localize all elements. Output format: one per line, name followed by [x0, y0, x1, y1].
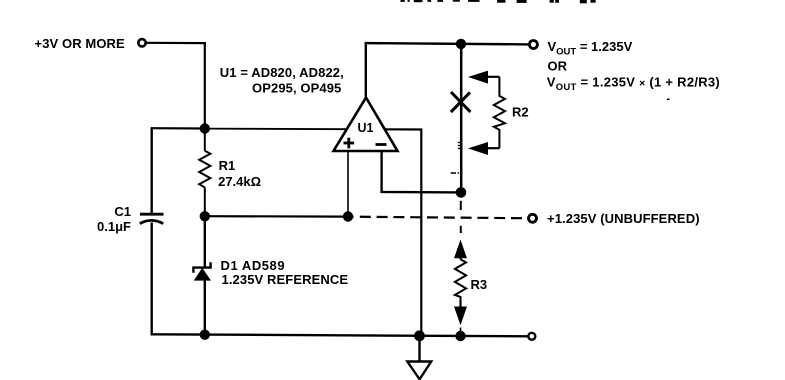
op-amp U1	[334, 98, 398, 152]
cropped title text bottom fragments	[401, 0, 596, 3]
wire ground rail	[151, 334, 530, 336]
diode D1 zener	[193, 216, 211, 335]
svg-text:R3: R3	[471, 277, 488, 292]
node junction D1/ground rail	[200, 330, 210, 340]
stray dash artifact	[451, 172, 459, 174]
wire node to unbuffered junction	[205, 215, 348, 218]
node junction plus input / unbuffered line	[343, 211, 353, 221]
svg-text:OR: OR	[548, 58, 568, 73]
capacitor C1	[140, 214, 164, 335]
svg-text:VOUT = 1.235V × (1 + R2/R3): VOUT = 1.235V × (1 + R2/R3)	[547, 75, 720, 93]
break mark X	[451, 92, 471, 112]
ground symbol	[407, 336, 431, 380]
node junction R3/ground rail	[455, 331, 465, 341]
resistor R2 with arrows	[468, 71, 505, 155]
wire dashed unbuffered output	[354, 217, 523, 219]
node ground rail terminal	[528, 333, 535, 340]
wire minus input feedback	[382, 150, 461, 192]
wire C1 branch vertical upper	[150, 127, 152, 214]
svg-text:C1: C1	[114, 204, 131, 219]
svg-text:0.1μF: 0.1μF	[97, 219, 131, 234]
svg-text:+1.235V (UNBUFFERED): +1.235V (UNBUFFERED)	[547, 211, 700, 226]
svg-text:VOUT = 1.235V: VOUT = 1.235V	[548, 39, 633, 57]
node VOUT terminal	[529, 41, 537, 49]
wire supply vertical	[204, 42, 206, 129]
svg-text:U1: U1	[358, 121, 374, 135]
resistor R3 with arrows	[454, 240, 467, 332]
wire top output rail	[365, 43, 530, 44]
node junction output rail / R2 branch	[456, 39, 466, 49]
svg-text:R2: R2	[512, 104, 529, 119]
svg-text:U1 = AD820, AD822,: U1 = AD820, AD822,	[220, 65, 344, 80]
node unbuffered terminal	[529, 214, 537, 222]
node junction feedback / minus input	[456, 187, 467, 198]
wire supply horizontal	[146, 42, 206, 44]
wire dashed to R3	[460, 201, 462, 233]
stray speck	[667, 99, 670, 101]
wire op-amp V- to ground rail	[385, 129, 422, 335]
svg-text:D1 AD589: D1 AD589	[221, 258, 286, 273]
node junction V-/ground rail	[414, 330, 425, 341]
svg-text:+3V OR MORE: +3V OR MORE	[35, 36, 126, 51]
node +3V input terminal	[138, 39, 145, 46]
resistor R1	[199, 129, 210, 217]
tick artifacts on feedback line	[458, 142, 461, 149]
svg-text:1.235V REFERENCE: 1.235V REFERENCE	[222, 272, 349, 287]
node junction R1/D1/+input	[200, 211, 210, 221]
svg-text:27.4kΩ: 27.4kΩ	[218, 174, 261, 189]
svg-text:R1: R1	[219, 158, 236, 173]
wire feedback branch with X	[460, 44, 463, 193]
wire junction to C1 branch	[151, 127, 205, 130]
wire plus input vertical	[347, 150, 349, 217]
wire op-amp output apex to top rail	[365, 42, 367, 99]
svg-text:OP295, OP495: OP295, OP495	[252, 80, 341, 95]
node junction supply/R1/C1	[200, 123, 210, 133]
wire junction to op-amp + input	[205, 128, 347, 131]
